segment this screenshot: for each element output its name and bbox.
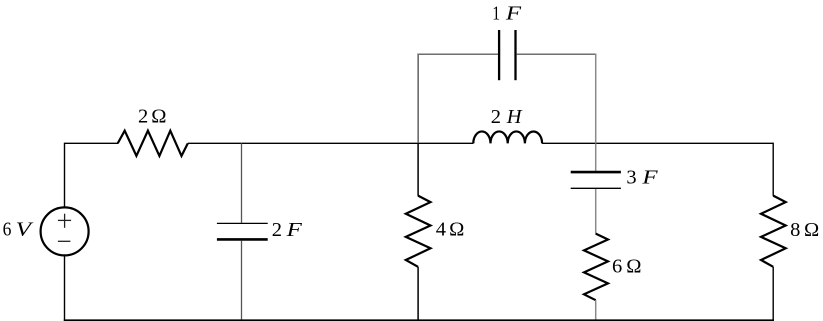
wire 2F branch upper [241, 143, 243, 222]
svg-text:Ω: Ω [449, 218, 464, 240]
svg-text:6: 6 [612, 256, 622, 278]
wire top rail middle segment [188, 142, 474, 144]
wire top loop left horizontal [417, 53, 498, 55]
wire 6Ω to bottom rail [595, 300, 597, 321]
capacitor 2F [217, 223, 268, 239]
resistor 2Ω [118, 131, 188, 156]
svg-text:Ω: Ω [626, 256, 641, 278]
svg-text:H: H [506, 106, 523, 128]
svg-text:Ω: Ω [151, 105, 166, 127]
wire top loop right vertical [595, 54, 597, 144]
label 6V [3, 218, 34, 240]
label 6Ω [612, 256, 641, 278]
wire right rail lower [772, 267, 774, 321]
label 2F [272, 219, 303, 241]
wire top rail right segment [542, 142, 773, 144]
label 3F [626, 167, 658, 189]
svg-text:2: 2 [272, 219, 282, 241]
resistor 4Ω [406, 196, 431, 267]
label 2Ω [138, 105, 167, 127]
wire top loop right horizontal [516, 53, 596, 55]
svg-text:8: 8 [790, 219, 800, 241]
wire left rail upper [64, 143, 66, 208]
svg-text:2: 2 [491, 106, 501, 128]
wire 4Ω branch lower [417, 267, 419, 321]
wire bottom rail [64, 319, 774, 321]
wire between 3F and 6Ω [595, 189, 597, 234]
svg-text:2: 2 [138, 105, 148, 127]
wire right rail upper [772, 143, 774, 196]
wire top rail left segment [65, 142, 119, 144]
svg-text:Ω: Ω [804, 219, 819, 241]
wire 3F branch stub [595, 143, 597, 171]
label 2H [491, 106, 523, 128]
label 1F [492, 3, 521, 25]
wire left rail lower [64, 255, 66, 321]
capacitor 3F [571, 172, 621, 188]
wire 4Ω branch upper [417, 143, 419, 195]
svg-text:4: 4 [436, 218, 446, 240]
svg-text:F: F [641, 167, 658, 189]
resistor 6Ω [584, 234, 608, 301]
capacitor 1F [499, 30, 515, 80]
label 4Ω [436, 218, 465, 240]
svg-text:3: 3 [626, 167, 636, 189]
svg-text:F: F [285, 219, 302, 241]
wire top loop left vertical [417, 54, 419, 144]
label 8Ω [790, 219, 819, 241]
wire 2F branch lower [241, 241, 243, 321]
svg-text:1: 1 [492, 3, 500, 25]
resistor 8Ω [761, 196, 786, 267]
svg-text:6: 6 [3, 218, 12, 240]
svg-text:F: F [505, 3, 522, 25]
inductor 2H [473, 131, 542, 143]
voltage source 6V [41, 207, 89, 255]
